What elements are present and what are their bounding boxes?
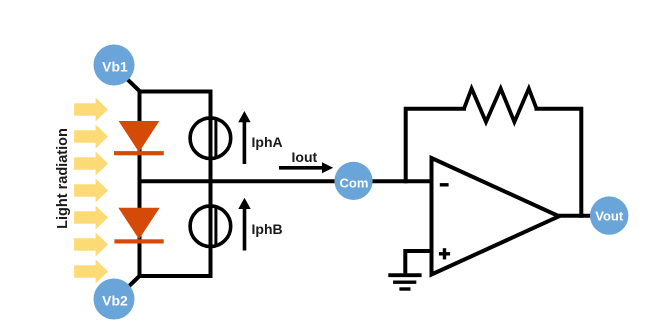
arrow IphB: [238, 198, 250, 251]
node Vb1: [94, 45, 135, 86]
svg-text:Light radiation: Light radiation: [55, 128, 71, 229]
light arrow 6: [74, 233, 108, 257]
arrow IphA: [238, 111, 250, 164]
wire feedback right leg: [535, 109, 582, 218]
svg-text:Iout: Iout: [292, 149, 318, 165]
node Vout: [590, 196, 628, 234]
light arrow 4: [74, 179, 108, 203]
wire Vb2 to bottom rail: [127, 275, 142, 289]
svg-text:IphB: IphB: [252, 221, 283, 237]
resistor R1: [464, 89, 537, 123]
ground: [388, 275, 421, 289]
svg-text:Vb2: Vb2: [102, 292, 128, 308]
light arrow 7: [74, 260, 108, 284]
current source IphB: [190, 206, 231, 247]
current source IphA: [190, 118, 231, 159]
light arrow 5: [74, 206, 108, 230]
light arrow 1: [74, 98, 108, 122]
svg-text:Vout: Vout: [595, 209, 624, 224]
photodiode D1: [114, 121, 164, 155]
wire non-inverting input to ground: [405, 251, 431, 273]
op-amp U1: [432, 158, 560, 275]
wire bottom rail: [138, 274, 213, 278]
svg-text:Com: Com: [340, 176, 369, 191]
wire left rail: [138, 90, 142, 279]
wire Vb1 to top rail: [127, 79, 142, 93]
photodiode D2: [114, 208, 163, 244]
wire feedback left leg: [406, 109, 466, 184]
wire current-source branch: [209, 90, 213, 279]
light arrow 2: [74, 125, 108, 149]
node Vb2: [94, 279, 135, 320]
wire middle rail / Iout to op-amp: [138, 179, 432, 183]
wire output: [557, 214, 591, 218]
arrow Iout: [279, 162, 333, 173]
svg-text:Vb1: Vb1: [102, 58, 128, 74]
light arrow 3: [74, 152, 108, 176]
svg-text:IphA: IphA: [252, 134, 283, 150]
wire top rail: [138, 90, 213, 94]
node Com: [334, 162, 372, 200]
